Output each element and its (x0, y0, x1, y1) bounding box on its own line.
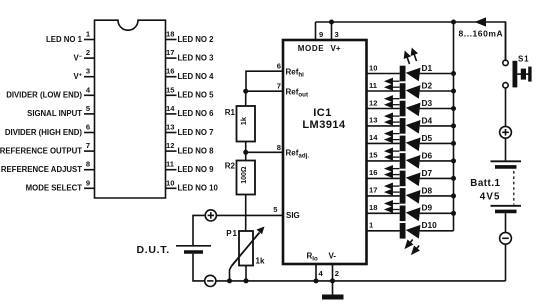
junction node D9/rail (451, 211, 456, 216)
LED D4 triangle (405, 118, 421, 133)
svg-text:3: 3 (86, 67, 90, 76)
LED D6 cathode bar (400, 153, 406, 169)
svg-text:D5: D5 (422, 133, 433, 143)
svg-text:12: 12 (369, 98, 377, 107)
DIP pin 9 stub (84, 187, 95, 189)
LED D7 triangle (405, 171, 421, 186)
wire IC pin 1 to LED D10 cathode (367, 230, 400, 232)
wire IC pin 14 to LED D5 cathode (367, 142, 400, 144)
svg-text:LED NO 4: LED NO 4 (178, 72, 215, 81)
wire LED D1 anode to LED supply rail (420, 73, 454, 75)
LED D3 triangle (405, 101, 421, 116)
svg-text:LED NO 9: LED NO 9 (178, 165, 215, 174)
battery Batt.1 cell 1 negative plate (495, 165, 517, 169)
svg-text:D2: D2 (422, 80, 433, 90)
wire IC pin 12 to LED D3 cathode (367, 108, 400, 110)
wire battery bottom plate to - terminal (505, 213, 507, 232)
wire IC pin 10 to LED D1 cathode (367, 73, 400, 75)
DIP package outline (pinout diagram) (95, 20, 166, 198)
svg-text:P1: P1 (226, 229, 238, 238)
svg-text:14: 14 (369, 133, 378, 142)
svg-text:D3: D3 (422, 98, 433, 108)
DIP pin 18 stub (166, 39, 177, 41)
svg-text:D.U.T.: D.U.T. (137, 244, 170, 256)
op-amp / driver IC U1: IC1 LM3914 body (283, 40, 367, 264)
wire + terminal to D.U.T. battery + (193, 215, 205, 245)
switch S1 top contact (503, 60, 508, 65)
DIP pin 11 stub (166, 169, 177, 171)
svg-text:8...160mA: 8...160mA (459, 29, 504, 39)
svg-text:9: 9 (86, 178, 90, 187)
LED D3 emission arrows (386, 96, 400, 107)
wire LED D2 anode to LED supply rail (420, 90, 454, 92)
svg-text:1k: 1k (239, 116, 248, 125)
LED D2 emission arrows (386, 79, 400, 90)
ground bus wire (216, 280, 506, 282)
LED anode supply rail wire (453, 22, 455, 231)
DIP pin 8 stub (84, 169, 95, 171)
wire IC pin 18 to LED D9 cathode (367, 212, 400, 214)
junction node D1/rail (451, 71, 456, 76)
DIP pin 16 stub (166, 76, 177, 78)
LED D1 emission arrows (405, 49, 417, 64)
junction node R1/R2/pin8 (243, 150, 248, 155)
svg-text:LED NO 10: LED NO 10 (178, 184, 219, 193)
svg-text:DIVIDER (HIGH END): DIVIDER (HIGH END) (5, 128, 83, 137)
svg-text:13: 13 (166, 123, 174, 132)
LED D9 emission arrows (386, 201, 400, 212)
svg-text:10: 10 (166, 178, 174, 187)
wire LED D3 anode to LED supply rail (420, 108, 454, 110)
junction node D6/rail (451, 158, 456, 163)
svg-text:16: 16 (369, 168, 377, 177)
wire pin 4 R_lo to ground bus (315, 264, 317, 281)
DIP pin 12 stub (166, 150, 177, 152)
svg-text:11: 11 (166, 160, 175, 169)
junction node P1 bottom/ground bus (244, 278, 249, 283)
DIP pin 1 stub (84, 39, 95, 41)
LED D2 triangle (405, 83, 421, 98)
switch S1 actuator bar (513, 61, 518, 88)
wire pin 3 (V+) up to V+ rail (331, 22, 333, 40)
LED D10 emission arrows (406, 240, 419, 254)
wire LED D9 anode to LED supply rail (420, 212, 454, 214)
wire LED D10 anode to LED supply rail (420, 230, 454, 232)
svg-text:8: 8 (277, 143, 281, 152)
junction node D3/rail (451, 106, 456, 111)
wire R1 top lead (245, 91, 247, 106)
DIP pin 2 stub (84, 57, 95, 59)
junction node pin4/ground bus (314, 278, 319, 283)
svg-text:6: 6 (277, 62, 281, 71)
svg-text:Batt.1: Batt.1 (470, 178, 500, 189)
LED D6 triangle (405, 153, 421, 168)
svg-text:3: 3 (335, 30, 339, 39)
wire LED D8 anode to LED supply rail (420, 195, 454, 197)
wire IC pin 15 to LED D6 cathode (367, 160, 400, 162)
svg-text:10: 10 (369, 63, 377, 72)
ground symbol (322, 295, 344, 300)
svg-text:15: 15 (369, 151, 378, 160)
wire - terminal down to ground bus (505, 244, 507, 281)
LED D7 cathode bar (400, 171, 406, 187)
junction node pin3/rail (329, 20, 334, 25)
svg-text:9: 9 (319, 30, 323, 39)
LED D8 triangle (405, 188, 421, 203)
DIP pin 14 stub (166, 113, 177, 115)
svg-text:8: 8 (86, 160, 90, 169)
wire IC pin 17 to LED D8 cathode (367, 195, 400, 197)
svg-text:18: 18 (166, 30, 174, 39)
LED D7 emission arrows (386, 166, 400, 177)
DIP pin 10 stub (166, 187, 177, 189)
svg-text:2: 2 (335, 269, 339, 278)
battery + terminal circle (500, 126, 512, 138)
wire IC pin 16 to LED D7 cathode (367, 177, 400, 179)
resistor R2 body (237, 161, 256, 195)
wire LED D4 anode to LED supply rail (420, 125, 454, 127)
wire pin 8 Ref_adj (246, 151, 283, 153)
svg-text:16: 16 (166, 67, 174, 76)
junction node wiper/ground bus (227, 278, 232, 283)
LED D10 triangle (405, 223, 421, 238)
wire LED D6 anode to LED supply rail (420, 160, 454, 162)
wire P1 wiper to ground bus (230, 266, 232, 281)
junction node D2/rail (451, 89, 456, 94)
LED D10 cathode bar (400, 223, 406, 239)
terminal + (croc clip to D.U.T.) (205, 210, 216, 221)
junction node D8/rail (451, 193, 456, 198)
DIP pin 7 stub (84, 150, 95, 152)
svg-text:4V5: 4V5 (480, 192, 501, 203)
wire LED D5 anode to LED supply rail (420, 142, 454, 144)
junction node LED rail / supply (451, 20, 456, 25)
current direction arrow on rail (475, 17, 487, 26)
svg-text:LM3914: LM3914 (302, 119, 346, 131)
wire pin 2 V- to ground bus and ground symbol (332, 264, 334, 295)
battery D.U.T. positive plate (176, 245, 211, 247)
LED D1 triangle (405, 66, 421, 81)
svg-text:MODE: MODE (298, 44, 324, 53)
resistor R1 body (237, 106, 256, 142)
battery Batt.1 cell 1 positive plate (491, 160, 522, 162)
junction node D7/rail (451, 176, 456, 181)
battery - terminal circle (500, 232, 512, 244)
wire S1 bottom contact to battery + terminal (505, 88, 507, 127)
svg-text:S1: S1 (518, 55, 529, 64)
svg-text:SIG: SIG (286, 211, 300, 220)
LED D4 emission arrows (386, 114, 400, 125)
DIP pin 15 stub (166, 94, 177, 96)
LED D5 triangle (405, 136, 421, 151)
svg-text:LED NO 5: LED NO 5 (178, 91, 215, 100)
terminal - (croc clip to D.U.T.) (205, 275, 216, 286)
LED D2 cathode bar (400, 83, 406, 99)
svg-text:17: 17 (166, 48, 174, 57)
svg-text:D1: D1 (422, 63, 433, 73)
junction node pin2/ground bus (330, 278, 335, 283)
svg-text:14: 14 (166, 104, 175, 113)
svg-text:100Ω: 100Ω (241, 166, 248, 184)
svg-text:DIVIDER (LOW END): DIVIDER (LOW END) (6, 91, 82, 100)
battery omitted-cells dashed line (513, 171, 515, 205)
junction node pin6/pin7/R1 (243, 89, 248, 94)
svg-text:LED NO 1: LED NO 1 (46, 35, 83, 44)
svg-text:6: 6 (86, 123, 90, 132)
svg-text:D8: D8 (422, 185, 433, 195)
svg-text:IC1: IC1 (313, 107, 332, 119)
LED D5 emission arrows (386, 131, 400, 142)
switch S1 shaft bead (521, 69, 526, 80)
svg-text:LED NO 8: LED NO 8 (178, 146, 215, 155)
switch S1 shaft (517, 73, 529, 75)
DIP pin 4 stub (84, 94, 95, 96)
LED D8 emission arrows (386, 184, 400, 195)
wire P1 bottom lead to ground bus (245, 266, 247, 281)
wire rail to switch S1 top contact (505, 22, 507, 60)
svg-text:D4: D4 (422, 115, 433, 125)
wire D.U.T. battery - to - terminal (193, 254, 205, 281)
LED D1 cathode bar (400, 66, 406, 82)
svg-text:SIGNAL INPUT: SIGNAL INPUT (27, 109, 82, 118)
svg-text:R2: R2 (225, 162, 236, 171)
svg-text:MODE SELECT: MODE SELECT (26, 184, 83, 193)
LED D4 cathode bar (400, 118, 406, 134)
svg-text:17: 17 (369, 186, 377, 195)
DIP pin 5 stub (84, 113, 95, 115)
wire IC pin 13 to LED D4 cathode (367, 125, 400, 127)
svg-text:15: 15 (166, 85, 175, 94)
LED D9 cathode bar (400, 206, 406, 222)
battery Batt.1 cell 2 negative plate (495, 210, 517, 214)
svg-text:LED NO 3: LED NO 3 (178, 53, 215, 62)
svg-text:12: 12 (166, 141, 174, 150)
svg-text:V-: V- (329, 252, 337, 261)
wire + terminal to battery top plate (505, 138, 507, 160)
DIP pin 3 stub (84, 76, 95, 78)
svg-text:2: 2 (86, 48, 90, 57)
LED D8 cathode bar (400, 188, 406, 204)
svg-text:11: 11 (369, 81, 378, 90)
junction node D5/rail (451, 141, 456, 146)
wire pin 7 Ref_out (246, 90, 283, 92)
svg-text:18: 18 (369, 203, 377, 212)
wire + terminal to pin 5 SIG (216, 214, 283, 216)
wire IC pin 11 to LED D2 cathode (367, 90, 400, 92)
svg-text:1k: 1k (256, 257, 265, 266)
switch S1 button cap (528, 67, 531, 82)
junction node D4/rail (451, 123, 456, 128)
LED D5 cathode bar (400, 136, 406, 152)
svg-text:REFERENCE OUTPUT: REFERENCE OUTPUT (0, 146, 82, 155)
svg-text:13: 13 (369, 116, 377, 125)
svg-text:V+: V+ (330, 44, 340, 53)
svg-text:7: 7 (86, 141, 90, 150)
switch S1 bottom contact (503, 83, 508, 88)
svg-text:REFERENCE ADJUST: REFERENCE ADJUST (1, 165, 82, 174)
DIP pin 17 stub (166, 57, 177, 59)
LED D3 cathode bar (400, 101, 406, 117)
svg-text:LED NO 7: LED NO 7 (178, 128, 214, 137)
svg-text:LED NO 6: LED NO 6 (178, 109, 215, 118)
svg-text:LED NO 2: LED NO 2 (178, 35, 215, 44)
svg-text:R1: R1 (225, 108, 236, 117)
V+ supply rail wire (top) (316, 22, 506, 60)
wire R1 bottom lead (245, 142, 247, 161)
DIP pin 13 stub (166, 132, 177, 134)
potentiometer P1 body (239, 231, 253, 266)
wire R2 bottom to P1 top (crosses SIG wire, no junction) (245, 195, 247, 232)
svg-text:7: 7 (277, 82, 281, 91)
svg-text:D6: D6 (422, 150, 433, 160)
P1 wiper arrow (232, 233, 260, 267)
LED D9 triangle (405, 206, 421, 221)
LED D6 emission arrows (386, 149, 400, 160)
svg-text:D7: D7 (422, 168, 433, 178)
wire pin 6 Ref_hi (246, 71, 283, 91)
wire pin 9 (MODE) up to V+ rail (315, 22, 317, 40)
battery Batt.1 cell 2 positive plate (491, 205, 522, 207)
svg-text:D10: D10 (422, 220, 438, 230)
svg-text:D9: D9 (422, 203, 433, 213)
battery D.U.T. negative plate (184, 250, 203, 253)
wire LED D7 anode to LED supply rail (420, 177, 454, 179)
DIP pin 6 stub (84, 132, 95, 134)
